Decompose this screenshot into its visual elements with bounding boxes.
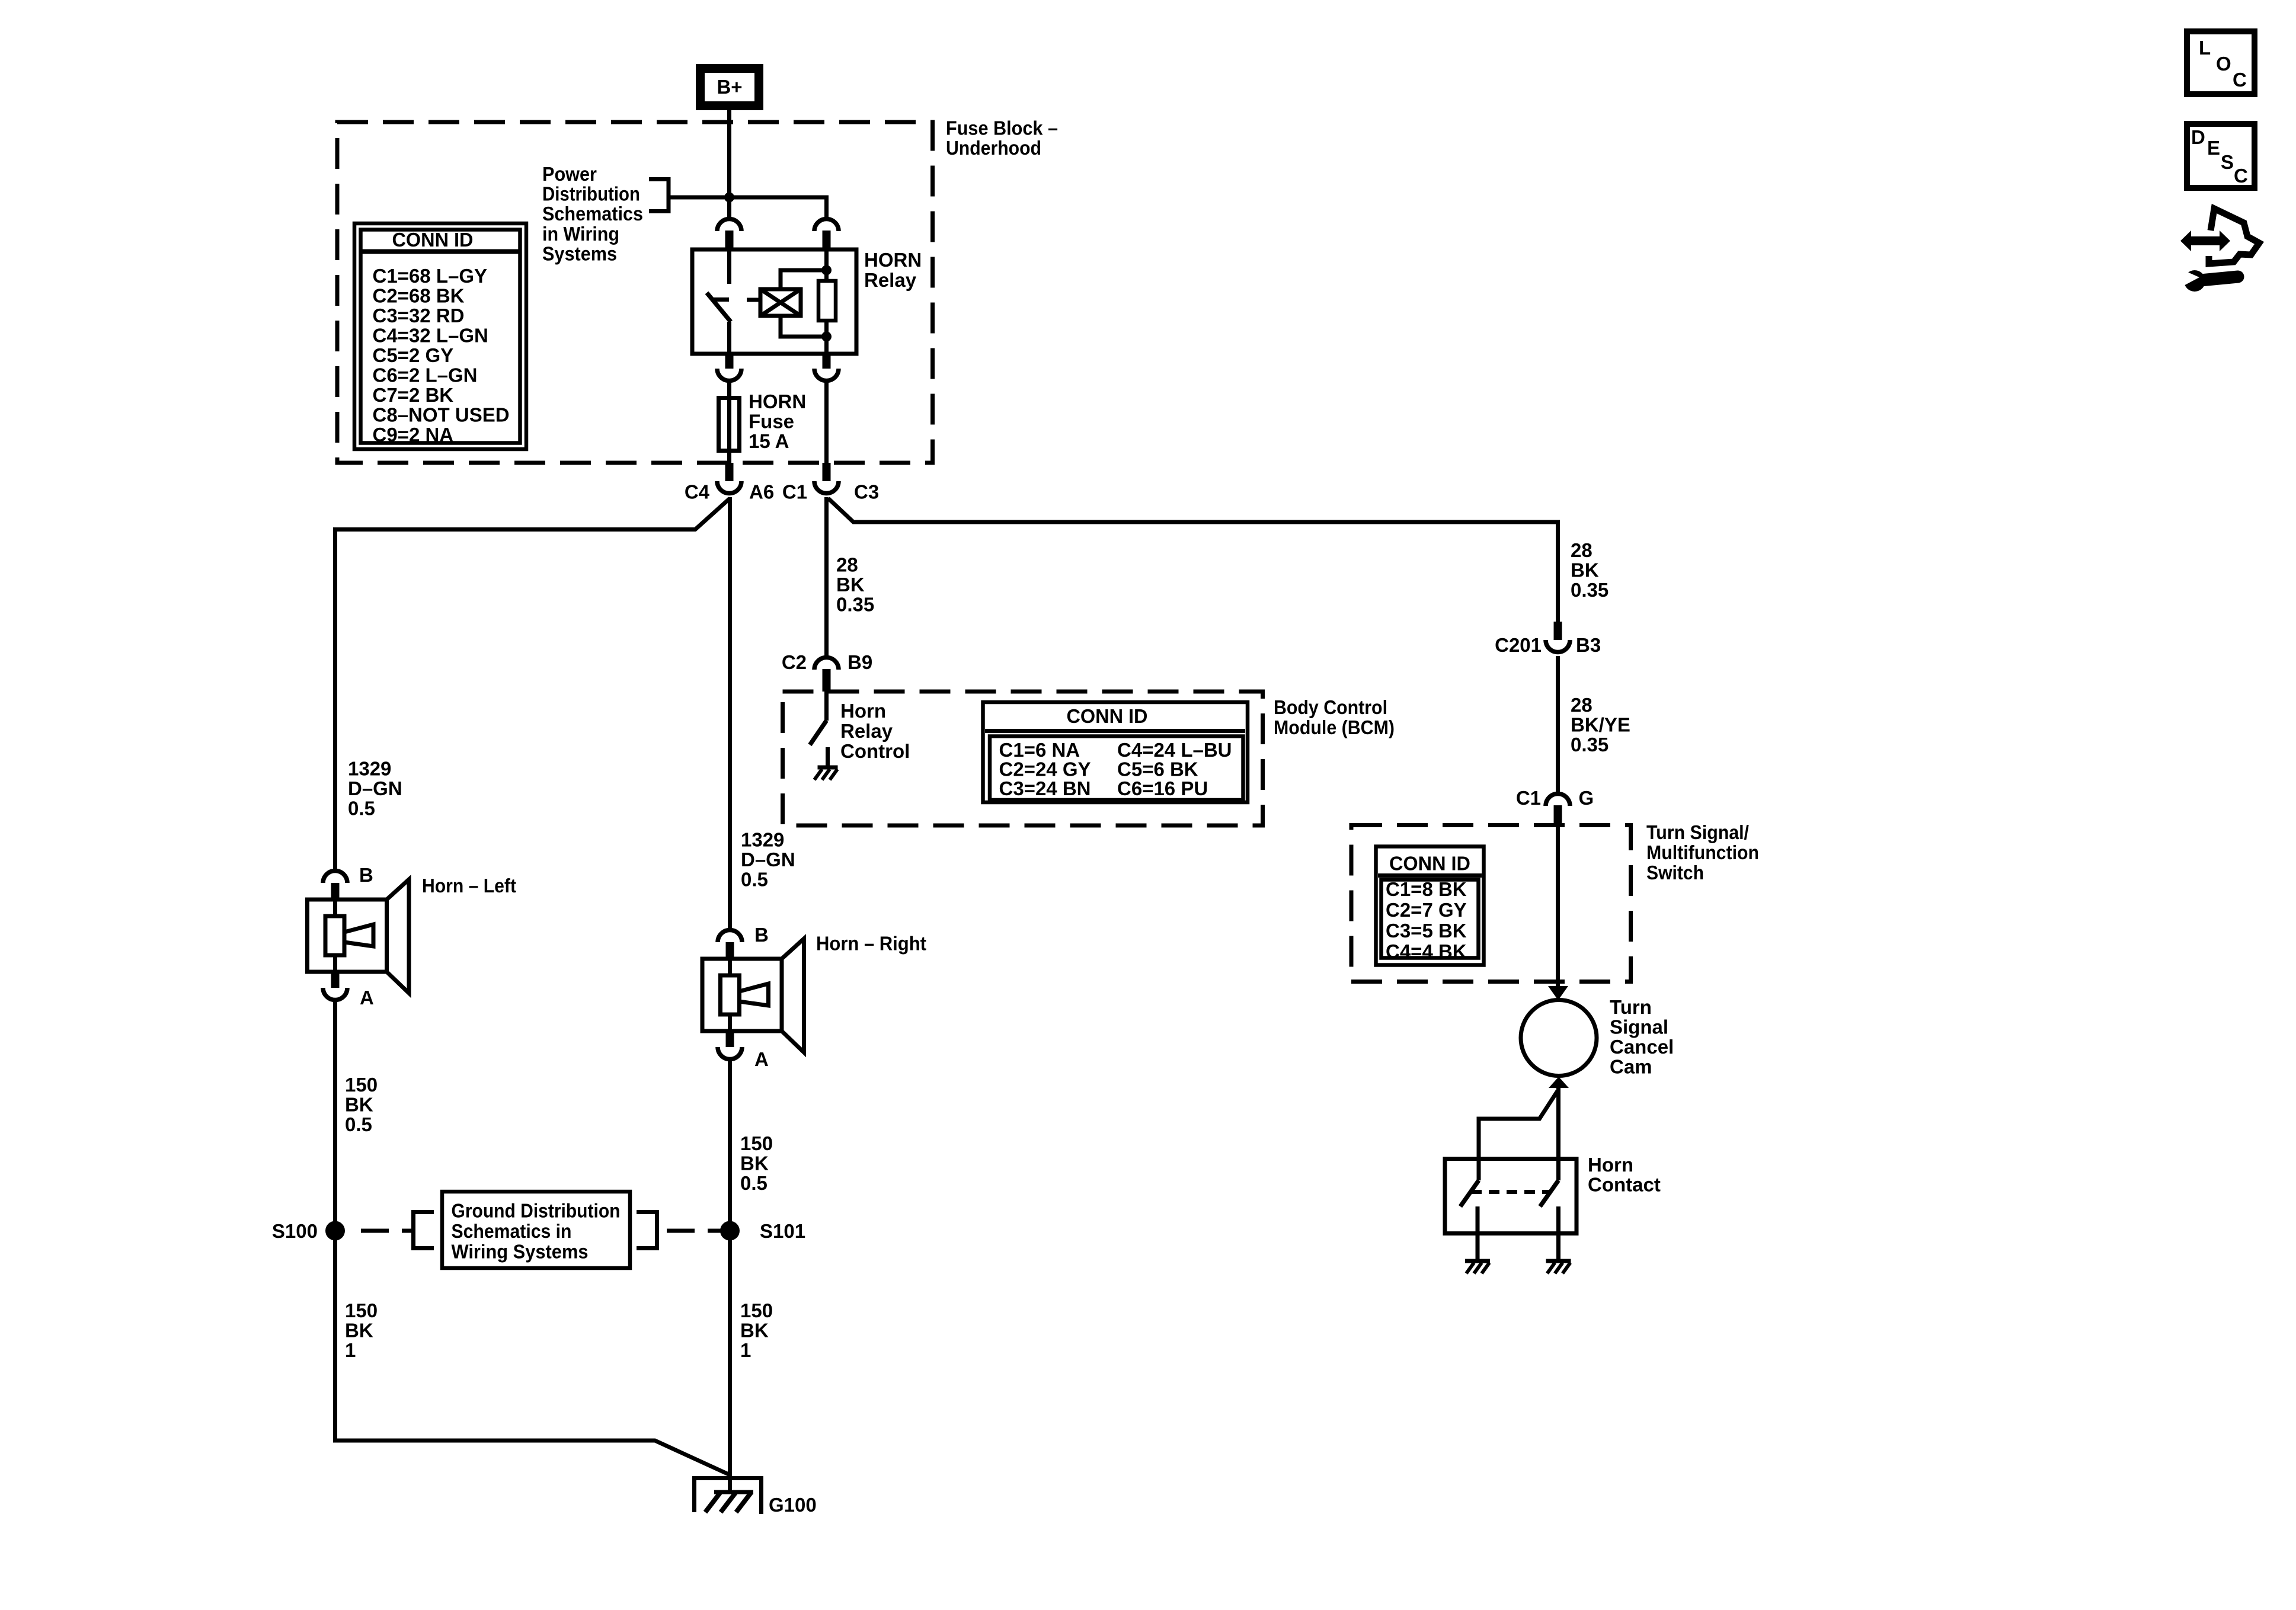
svg-text:C6=16 PU: C6=16 PU [1117, 777, 1208, 799]
svg-text:Horn: Horn [1588, 1154, 1633, 1176]
ground (BCM internal) [814, 747, 838, 780]
svg-text:BK: BK [740, 1153, 769, 1174]
svg-text:C9=2 NA: C9=2 NA [373, 424, 454, 446]
svg-text:28: 28 [1571, 539, 1593, 561]
svg-text:Module (BCM): Module (BCM) [1274, 716, 1395, 738]
svg-text:Distribution: Distribution [542, 183, 640, 205]
svg-text:HORN: HORN [749, 391, 806, 412]
connector pin below relay pin 87 [725, 354, 734, 369]
power node B+ [701, 69, 759, 106]
label wire 150 BK 0.5 (left) [345, 1074, 378, 1135]
svg-text:E: E [2207, 137, 2220, 159]
horn contact right lower contact wire to ground [1556, 1206, 1560, 1261]
horn right (sounder symbol) [702, 939, 804, 1052]
label wire 28 BK 0.35 (right branch) [1571, 539, 1609, 601]
svg-text:Contact: Contact [1588, 1174, 1661, 1196]
arrowhead up from horn contact to cancel cam [1549, 1077, 1569, 1088]
relay coil (box with X) [747, 289, 801, 316]
svg-text:1: 1 [740, 1339, 751, 1361]
wire coil bottom to node [781, 316, 827, 337]
svg-text:B: B [754, 924, 769, 946]
svg-text:C1: C1 [1516, 787, 1541, 809]
connector socket C4/A6 [717, 481, 741, 494]
svg-text:C4=4 BK: C4=4 BK [1386, 940, 1467, 962]
bracket ] at ground distribution box right [637, 1212, 657, 1249]
label wire 28 BK 0.35 (relay control) [836, 554, 874, 616]
svg-text:C: C [2233, 69, 2247, 91]
wire relay right output down to fuse block edge [824, 383, 829, 463]
LOC icon box [2187, 31, 2255, 94]
fuse F: HORN Fuse 15 A [719, 383, 740, 463]
label wire 1329 D-GN 0.5 (left) [348, 758, 402, 820]
bracket ] for power distribution reference [649, 180, 669, 212]
repair icon angular outline [2209, 209, 2259, 264]
svg-text:Underhood: Underhood [946, 137, 1041, 159]
svg-text:28: 28 [836, 554, 858, 576]
connector pin B9 into BCM [823, 669, 831, 692]
junction dot at B+ feed [724, 193, 734, 203]
label wire 150 BK 1 (middle) [740, 1299, 773, 1361]
svg-text:0.5: 0.5 [740, 1172, 768, 1194]
svg-text:Relay: Relay [864, 269, 917, 291]
svg-text:C1=6 NA: C1=6 NA [999, 739, 1080, 761]
svg-text:Cam: Cam [1610, 1056, 1652, 1078]
svg-text:Horn – Left: Horn – Left [422, 875, 516, 897]
ground (horn contact left) [1465, 1261, 1490, 1273]
label Fuse Block - Underhood [946, 117, 1058, 159]
connector socket below relay pin 87 [717, 369, 741, 381]
junction dot coil bottom node [821, 332, 832, 342]
svg-text:0.5: 0.5 [741, 869, 768, 891]
svg-text:C: C [2234, 165, 2248, 187]
svg-text:CONN ID: CONN ID [1389, 853, 1470, 875]
label Turn Signal/ Multifunction Switch [1646, 821, 1759, 884]
svg-text:150: 150 [345, 1299, 378, 1321]
connector pin into relay (right top) [823, 231, 831, 249]
bracket [ at ground distribution box left [414, 1212, 434, 1249]
wire horn left down to S100 [333, 998, 337, 1231]
splice S100 [325, 1221, 345, 1241]
svg-text:150: 150 [740, 1299, 773, 1321]
label Horn Relay Control [840, 700, 910, 762]
svg-text:Ground Distribution: Ground Distribution [452, 1200, 621, 1222]
svg-text:0.35: 0.35 [1571, 734, 1609, 756]
svg-text:Body Control: Body Control [1274, 696, 1387, 718]
svg-text:A6: A6 [749, 481, 774, 503]
junction dot coil top node [821, 265, 832, 276]
svg-text:in Wiring: in Wiring [542, 223, 619, 245]
svg-text:Multifunction: Multifunction [1646, 841, 1759, 863]
svg-text:Control: Control [840, 740, 910, 762]
horn contact right switch arm [1540, 1180, 1559, 1206]
svg-text:Cancel: Cancel [1610, 1036, 1674, 1058]
wire through turn signal switch to cancel cam [1556, 825, 1560, 991]
relay coil feed wire (right pin down to node) [824, 249, 829, 281]
wire C201 to turn signal switch C1 [1556, 656, 1560, 794]
svg-text:C8–NOT USED: C8–NOT USED [373, 404, 510, 426]
svg-text:150: 150 [345, 1074, 378, 1096]
wire left ground run to G100 [335, 1439, 730, 1475]
label HORN Fuse 15 A [749, 391, 806, 452]
label wire 150 BK 0.5 (middle) [740, 1132, 773, 1194]
arrowhead down into cancel cam [1548, 986, 1568, 1000]
svg-text:C7=2 BK: C7=2 BK [373, 384, 454, 406]
svg-text:C2=7 GY: C2=7 GY [1386, 899, 1467, 921]
DESC icon box [2187, 124, 2255, 188]
svg-text:S: S [2221, 151, 2234, 173]
connector pin G into turn signal switch [1554, 805, 1562, 825]
horn left (sounder symbol) [308, 879, 410, 993]
svg-text:S101: S101 [760, 1220, 805, 1242]
turn signal / multifunction switch dashed box [1351, 825, 1631, 982]
svg-text:BK: BK [740, 1320, 769, 1342]
label wire 1329 D-GN 0.5 (middle) [741, 829, 795, 891]
svg-text:CONN ID: CONN ID [1067, 705, 1148, 727]
wire C1 splice down to C2 connector [824, 497, 829, 658]
wire horn right down to S101 [728, 1058, 732, 1231]
svg-text:Fuse Block –: Fuse Block – [946, 117, 1058, 139]
svg-text:BK/YE: BK/YE [1571, 714, 1630, 736]
relay switch movable arm [707, 293, 731, 322]
svg-text:C2=24 GY: C2=24 GY [999, 758, 1091, 780]
horn contact left switch arm [1460, 1180, 1479, 1206]
svg-text:C201: C201 [1495, 634, 1542, 656]
label Turn Signal Cancel Cam [1610, 996, 1674, 1078]
repair icon wrench [2179, 268, 2238, 292]
svg-text:C5=6 BK: C5=6 BK [1117, 758, 1198, 780]
wire node to coil top [781, 270, 827, 289]
svg-text:C1=8 BK: C1=8 BK [1386, 878, 1467, 900]
svg-text:A: A [360, 987, 374, 1009]
dashed reference line S100 to ground distribution box [361, 1229, 415, 1233]
horn contact left lower contact wire to ground [1476, 1206, 1480, 1261]
svg-text:1329: 1329 [348, 758, 391, 780]
wire C1 splice diagonal to right branch toward C201 [829, 498, 1558, 622]
svg-text:1: 1 [345, 1339, 356, 1361]
svg-text:C3=32 RD: C3=32 RD [373, 305, 465, 327]
wire cancel cam to horn contact right switch [1556, 1087, 1560, 1180]
wire from C4 splice diagonal to left branch [335, 498, 730, 869]
svg-text:C4=32 L–GN: C4=32 L–GN [373, 325, 488, 347]
body control module dashed box [783, 692, 1263, 825]
label Horn Contact [1588, 1154, 1661, 1196]
svg-text:Schematics in: Schematics in [452, 1220, 572, 1242]
svg-text:C2: C2 [782, 651, 807, 673]
connector socket A (horn right) [718, 1047, 742, 1060]
svg-text:BK: BK [1571, 559, 1599, 581]
wire branch to horn contact left switch [1479, 1091, 1558, 1180]
svg-text:A: A [754, 1048, 769, 1070]
svg-text:Power: Power [542, 163, 597, 185]
connector pin C4 (male stub below fuse block) [725, 463, 734, 481]
connector socket C1/G (turn signal switch) [1546, 794, 1570, 806]
connector pin into relay (left top) [725, 231, 734, 249]
svg-text:D: D [2191, 126, 2205, 148]
connector pin A below horn right [726, 1031, 734, 1047]
svg-text:C3=5 BK: C3=5 BK [1386, 920, 1467, 942]
svg-text:Horn: Horn [840, 700, 886, 722]
wire S100 down to ground run [333, 1240, 337, 1442]
svg-text:Turn Signal/: Turn Signal/ [1646, 821, 1749, 843]
svg-text:15 A: 15 A [749, 430, 789, 452]
dashed reference line box to S101 [667, 1229, 728, 1233]
svg-text:B: B [359, 864, 373, 886]
svg-text:C5=2 GY: C5=2 GY [373, 344, 454, 366]
svg-text:D–GN: D–GN [348, 777, 402, 799]
connector socket A (horn left) [323, 988, 347, 1000]
connector socket C201/B3 [1546, 640, 1570, 652]
connector pin B into horn right [726, 942, 734, 960]
label wire 28 BK/YE 0.35 [1571, 694, 1630, 756]
BCM horn relay control driver wire [824, 692, 829, 721]
ground distribution schematics reference box [442, 1192, 630, 1268]
svg-text:0.5: 0.5 [348, 798, 375, 820]
svg-text:BK: BK [345, 1094, 373, 1116]
relay K: HORN Relay box [692, 249, 856, 354]
svg-text:0.35: 0.35 [1571, 579, 1609, 601]
connector pin at C201 [1554, 622, 1562, 640]
CONN ID table (turn signal switch) [1376, 847, 1484, 965]
svg-text:Systems: Systems [542, 242, 617, 264]
connector socket below relay pin 85 [814, 369, 839, 381]
label Body Control Module (BCM) [1274, 696, 1395, 738]
CONN ID table (BCM) [983, 702, 1248, 802]
svg-text:Relay: Relay [840, 720, 893, 742]
svg-text:Schematics: Schematics [542, 203, 643, 225]
svg-text:D–GN: D–GN [741, 849, 795, 870]
turn signal cancel cam circle [1521, 1000, 1597, 1076]
connector socket B (horn right) [718, 930, 742, 943]
svg-text:Signal: Signal [1610, 1016, 1668, 1038]
svg-text:Turn: Turn [1610, 996, 1652, 1018]
svg-text:CONN ID: CONN ID [392, 229, 474, 251]
svg-text:G: G [1579, 787, 1594, 809]
connector pin B into horn left [331, 883, 340, 901]
svg-text:S100: S100 [272, 1220, 318, 1242]
CONN ID table (fuse block underhood) [354, 223, 526, 449]
resistor (relay suppression) [818, 270, 836, 354]
fuse block - underhood dashed box [337, 122, 933, 463]
wire S101 down to G100 [728, 1240, 732, 1493]
svg-text:HORN: HORN [864, 249, 922, 271]
svg-text:BK: BK [836, 574, 865, 596]
svg-text:Switch: Switch [1646, 862, 1704, 884]
horn contact box [1445, 1159, 1576, 1234]
wire B+ down to relay coil/contact feed [727, 110, 731, 217]
connector socket B (horn left) [323, 870, 347, 883]
svg-text:B3: B3 [1576, 634, 1601, 656]
svg-text:Fuse: Fuse [749, 411, 794, 433]
svg-text:C6=2 L–GN: C6=2 L–GN [373, 364, 478, 386]
svg-text:C4: C4 [685, 481, 710, 503]
connector socket at relay pin 30 (left top) [717, 219, 741, 231]
svg-text:O: O [2216, 53, 2231, 75]
svg-text:B9: B9 [848, 651, 872, 673]
svg-text:28: 28 [1571, 694, 1593, 716]
wire C4 splice down to horn right [728, 497, 732, 929]
svg-text:G100: G100 [769, 1494, 817, 1516]
svg-text:C2=68 BK: C2=68 BK [373, 285, 465, 307]
BCM horn relay control switch arm [810, 721, 827, 745]
repair icon double arrow [2180, 231, 2230, 251]
svg-text:BK: BK [345, 1320, 373, 1342]
relay switch contact tick [713, 297, 729, 302]
relay switch output to pin 87 [727, 322, 731, 354]
svg-text:C4=24 L–BU: C4=24 L–BU [1117, 739, 1232, 761]
connector pin C1 (male stub below fuse block) [823, 463, 831, 481]
svg-text:1329: 1329 [741, 829, 784, 851]
svg-text:C1: C1 [782, 481, 807, 503]
connector pin A below horn left [331, 972, 340, 988]
svg-text:C3=24 BN: C3=24 BN [999, 777, 1091, 799]
connector socket C1/C3 [814, 481, 839, 494]
svg-text:150: 150 [740, 1132, 773, 1154]
svg-text:0.5: 0.5 [345, 1113, 372, 1135]
label HORN Relay [864, 249, 922, 291]
svg-text:C1=68 L–GY: C1=68 L–GY [373, 265, 488, 287]
splice S101 [720, 1221, 740, 1241]
ground G100 [695, 1478, 762, 1515]
ground (horn contact right) [1546, 1261, 1571, 1273]
svg-text:Horn – Right: Horn – Right [816, 933, 926, 955]
label wire 150 BK 1 (left) [345, 1299, 378, 1361]
mechanical link dashed line between horn contact switches [1471, 1190, 1549, 1194]
svg-text:L: L [2199, 37, 2211, 59]
connector socket at relay pin 86 (right top) [814, 219, 839, 231]
wire bracket to relay right pin [669, 197, 827, 217]
label Power Distribution Schematics in Wiring Systems [542, 163, 643, 264]
svg-text:C3: C3 [854, 481, 879, 503]
connector pin below relay pin 85 [823, 354, 831, 369]
connector socket C2/B9 [814, 658, 839, 670]
relay switch fixed contact (from pin 30) [727, 249, 731, 284]
svg-text:0.35: 0.35 [836, 594, 874, 616]
svg-text:B+: B+ [717, 76, 742, 98]
svg-text:Wiring Systems: Wiring Systems [452, 1241, 589, 1263]
